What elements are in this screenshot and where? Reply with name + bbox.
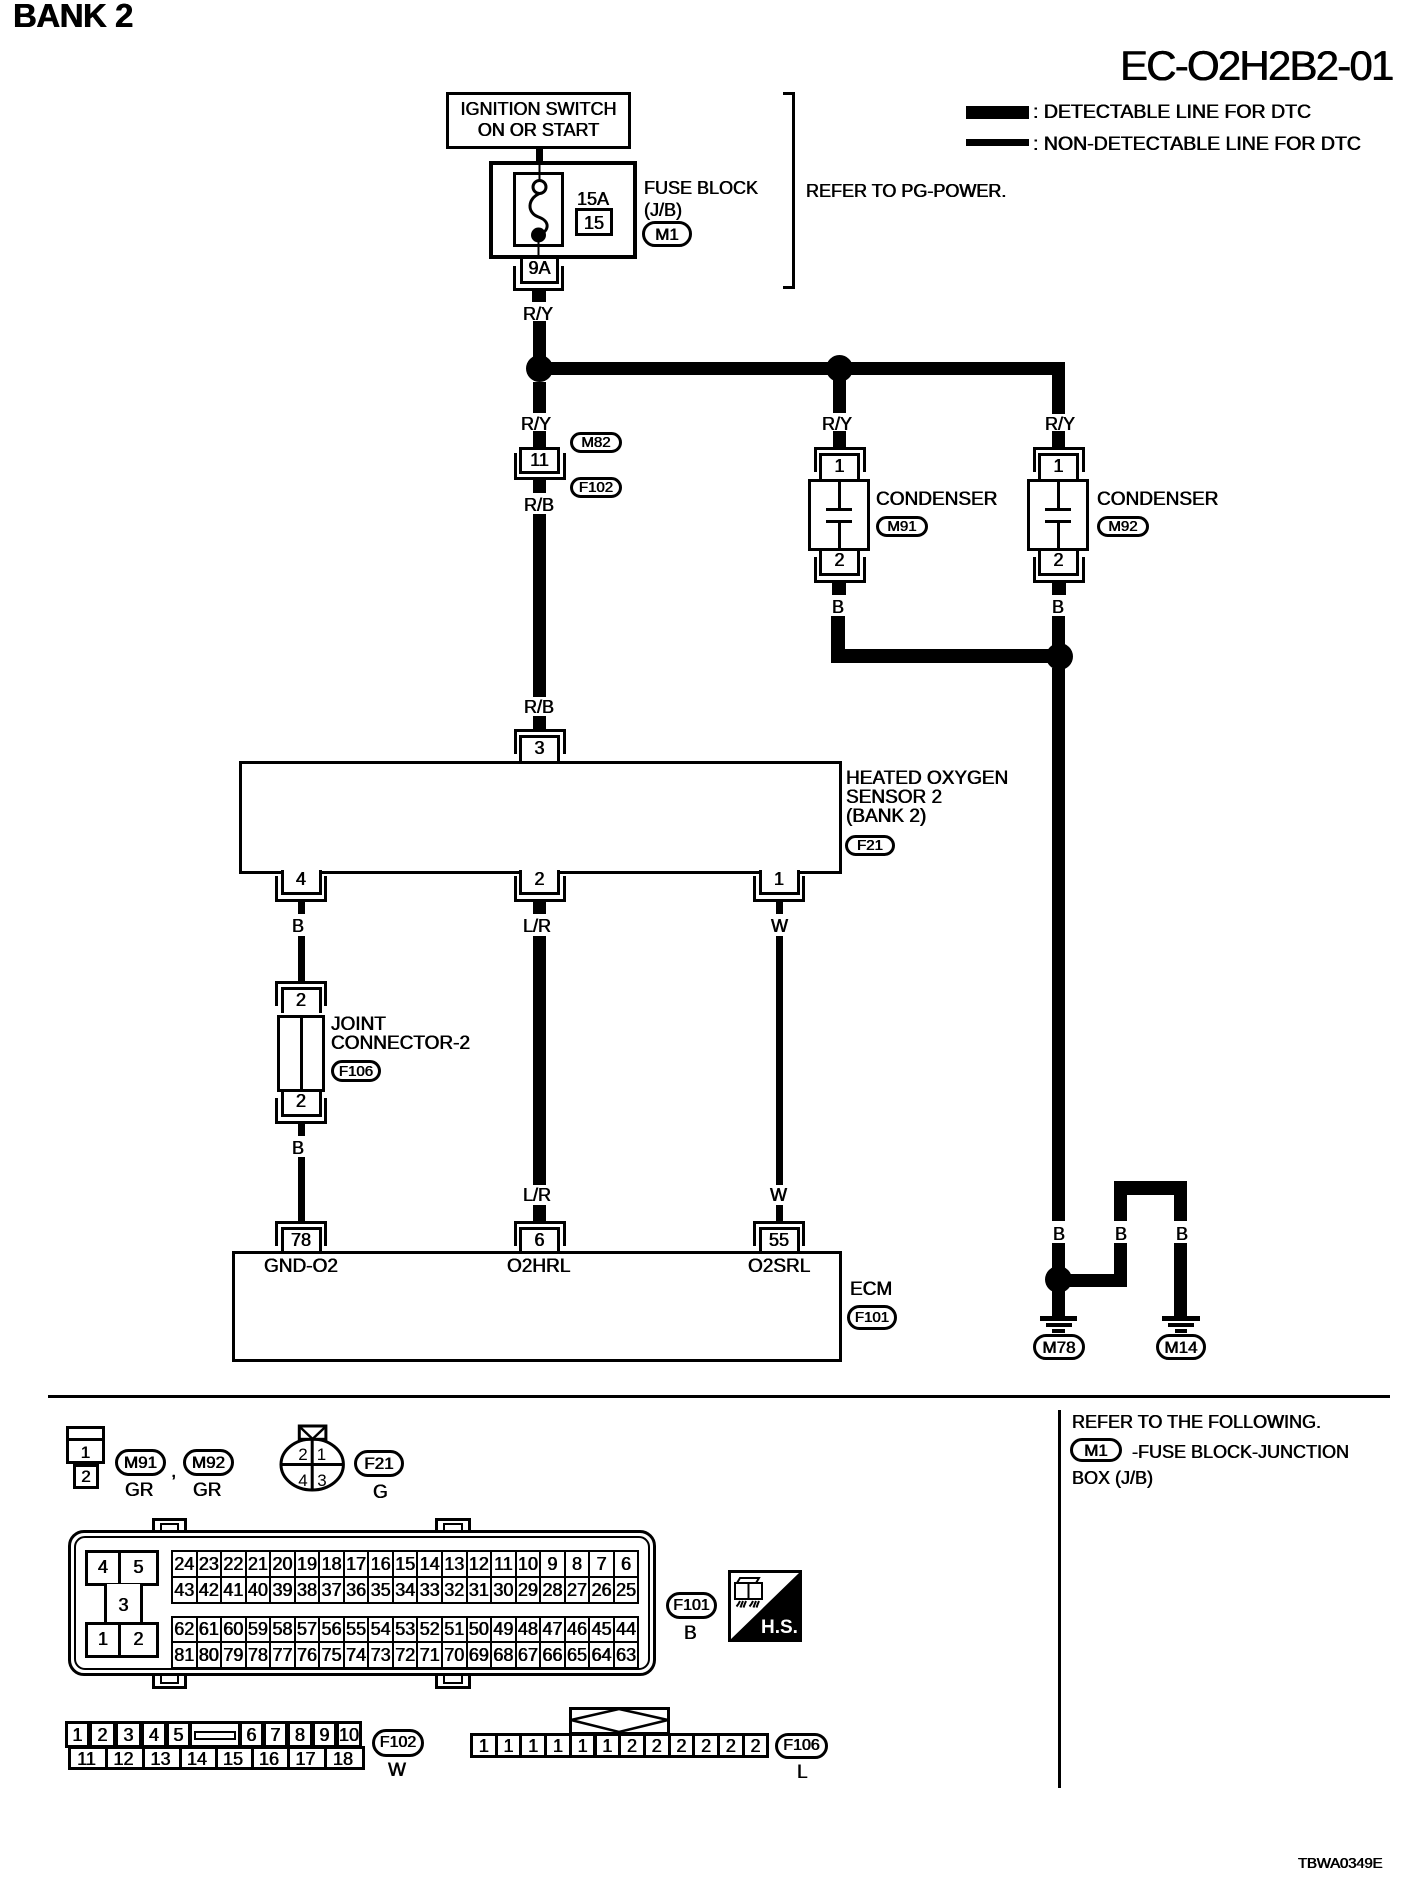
- wire B stub to ground M78: [1052, 1291, 1065, 1316]
- junction node A (left): [526, 355, 553, 382]
- wire label R/B (upper): [524, 495, 554, 516]
- svg-text:4: 4: [298, 1471, 307, 1490]
- wire B down to ECM pin 78: [298, 1157, 305, 1221]
- wire B bridge (inverted U): [1114, 1181, 1187, 1195]
- ignition switch label line2: [446, 120, 631, 141]
- joint connector pin 2 (top): [275, 981, 327, 1006]
- heated oxygen sensor 2 box F21: [239, 761, 842, 874]
- wire L/R stub below pin 2: [533, 902, 546, 914]
- junction node B (middle): [826, 355, 853, 382]
- face view oval F21: [354, 1450, 404, 1477]
- connector face view F102 row 11-18: [68, 1746, 108, 1770]
- wire label R/Y (right branch): [1045, 414, 1075, 435]
- note -FUSE BLOCK-JUNCTION: [1132, 1442, 1349, 1463]
- label HEATED OXYGEN: [846, 768, 1008, 790]
- ECM face bottom tab 1: [152, 1675, 187, 1689]
- ECM face top tab 1: [152, 1518, 187, 1531]
- connector face view M91/M92 (pins 1,2): [66, 1426, 105, 1464]
- wire label L/R (lower): [523, 1185, 551, 1206]
- wire label B (pin4): [292, 916, 304, 937]
- wire W stub above pin 55: [776, 1205, 783, 1221]
- fuse 15A symbol: [508, 150, 571, 260]
- connector oval M91: [876, 516, 928, 537]
- connector pin 11: [519, 447, 560, 474]
- ECM pin 78: [275, 1221, 327, 1246]
- condenser M91 pin 1: [814, 447, 866, 472]
- ECM face pins 1,2: [85, 1622, 121, 1658]
- condenser M91 body: [808, 479, 870, 551]
- fuse block outer box M1: [489, 161, 637, 259]
- ECM connector face view outline: [68, 1530, 656, 1676]
- wire B stub below pin 4: [298, 902, 305, 914]
- svg-text:1: 1: [317, 1445, 326, 1464]
- note BOX (J/B): [1072, 1468, 1153, 1489]
- wire stub below pin 11: [533, 480, 546, 493]
- ECM face pin grid rows 6-24/25-43: [171, 1550, 639, 1604]
- face view oval M91: [115, 1449, 166, 1476]
- condenser M91 pin 2: [819, 551, 860, 576]
- section separator line: [48, 1395, 1390, 1398]
- color W (F102): [388, 1760, 406, 1782]
- color L (F106): [797, 1762, 808, 1784]
- color B (F101): [684, 1623, 697, 1645]
- pin name GND-O2: [264, 1256, 338, 1278]
- H.S. harness symbol: [728, 1570, 802, 1642]
- wire stub to condenser M91 pin 1: [833, 431, 846, 447]
- connector pin 9A: [520, 259, 559, 284]
- wire B stub above ground junction: [1052, 1243, 1065, 1268]
- connector face view F102 row 1-10 with key slot: [65, 1721, 90, 1748]
- wire B horizontal to junction: [831, 649, 1060, 663]
- joint connector internal divider: [300, 1018, 303, 1089]
- wire stub to condenser M92 pin 1: [1052, 431, 1065, 447]
- wire B main vertical down: [1052, 668, 1065, 1221]
- wire stub to connector 11: [533, 431, 546, 447]
- svg-text:H.S.: H.S.: [761, 1617, 798, 1638]
- label (BANK 2): [846, 806, 926, 828]
- wire B vertical M91: [831, 616, 845, 663]
- wire label B (M92): [1052, 597, 1064, 618]
- label CONDENSER (M91): [876, 489, 997, 511]
- wire B vertical M92: [1052, 616, 1065, 646]
- label SENSOR 2: [846, 787, 942, 809]
- pin name O2HRL: [507, 1256, 570, 1278]
- ground symbol M78: [1040, 1316, 1077, 1321]
- wire label R/Y (fuse): [523, 304, 553, 325]
- wire label L/R (upper): [523, 916, 551, 937]
- ECM face pin 3: [104, 1584, 143, 1624]
- diagram id EC-O2H2B2-01: [1120, 41, 1393, 91]
- wire R/Y stub below 9A: [532, 291, 546, 302]
- condenser M92 pin 2: [1038, 551, 1079, 576]
- wire right branch corner down: [1052, 362, 1065, 414]
- wire R/B down to sensor: [533, 514, 546, 697]
- note REFER TO THE FOLLOWING.: [1072, 1412, 1321, 1433]
- F106 keying diamond: [569, 1707, 670, 1734]
- label ECM: [850, 1279, 892, 1301]
- ECM pin 55: [753, 1221, 805, 1246]
- wire B stub below M91 pin 2: [832, 583, 846, 595]
- wire label B (mid ground): [1115, 1224, 1127, 1245]
- ground oval M78: [1033, 1334, 1085, 1360]
- note REFER TO PG-POWER.: [806, 181, 1006, 202]
- ECM face bottom tab 2: [435, 1675, 471, 1689]
- fuse number 15: [575, 213, 613, 234]
- joint connector-2 body F106: [277, 1015, 325, 1092]
- connector oval M1: [642, 221, 692, 247]
- label CONNECTOR-2: [331, 1033, 470, 1055]
- connector oval F106: [331, 1060, 381, 1082]
- ignition switch label line1: [446, 99, 631, 120]
- wire B horizontal to junction D: [1059, 1274, 1127, 1287]
- comma between M91 M92: [171, 1461, 176, 1483]
- wire W down to ECM: [776, 936, 783, 1185]
- connector oval M92: [1097, 516, 1149, 537]
- wire B stub below joint connector: [298, 1124, 305, 1136]
- wire stub above pin 3: [533, 716, 546, 730]
- ECM face pin grid rows 44-62/63-81: [171, 1616, 639, 1670]
- label FUSE BLOCK: [644, 178, 758, 199]
- connector oval F21: [845, 835, 895, 856]
- wire label W (lower): [770, 1185, 787, 1206]
- ECM face top tab 2: [435, 1518, 471, 1531]
- junction node C (B wires): [1046, 643, 1073, 670]
- capacitor symbol M92: [1057, 479, 1060, 510]
- sensor pin 3: [514, 729, 566, 754]
- wire label R/Y (middle branch): [822, 414, 852, 435]
- connector face view F21 (round, pins 1-4): [278, 1422, 348, 1494]
- face view oval F106: [775, 1733, 828, 1759]
- condenser M92 body: [1027, 479, 1089, 551]
- ground oval M14: [1156, 1334, 1206, 1360]
- wire label B (right ground): [1176, 1224, 1188, 1245]
- pin name O2SRL: [748, 1256, 810, 1278]
- wire left branch below junction: [533, 382, 546, 413]
- label (J/B): [644, 200, 682, 221]
- ground symbol M14: [1162, 1316, 1200, 1321]
- wire W stub below pin 1: [776, 902, 783, 914]
- color GR (M91): [125, 1480, 154, 1502]
- fuse inner box: [513, 172, 564, 247]
- legend thin non-detectable line sample: [966, 139, 1029, 146]
- wire L/R stub above pin 6: [533, 1205, 546, 1221]
- face view oval F101: [666, 1592, 717, 1619]
- wire label B (main): [1053, 1224, 1065, 1245]
- connector oval F101 (schematic): [847, 1305, 897, 1330]
- capacitor symbol M91: [838, 479, 841, 510]
- wire label B (M91): [832, 597, 844, 618]
- sensor pin 1: [759, 870, 800, 895]
- junction node D (ground): [1045, 1266, 1072, 1293]
- joint connector pin 2 (bottom): [281, 1092, 322, 1117]
- face view oval F102: [372, 1729, 424, 1757]
- wire middle branch below junction: [833, 375, 846, 413]
- connector face view F106 row 1/2: [470, 1733, 498, 1758]
- wire label W (upper): [771, 916, 788, 937]
- legend text detectable: [1033, 101, 1311, 124]
- wire ignition to fuse stub: [536, 149, 543, 161]
- sensor pin 2: [519, 870, 560, 895]
- footer vertical divider: [1058, 1410, 1061, 1788]
- connector oval M82: [570, 432, 622, 453]
- svg-text:3: 3: [317, 1471, 326, 1490]
- footer oval M1: [1070, 1438, 1122, 1462]
- svg-text:2: 2: [298, 1445, 307, 1464]
- reference bracket: [792, 92, 795, 289]
- wire R/Y to junction: [533, 321, 546, 357]
- face view oval M92: [183, 1449, 234, 1476]
- fuse number box 15: [575, 208, 613, 236]
- wire B mid branch to junction: [1114, 1243, 1127, 1287]
- wire label R/B (lower): [524, 697, 554, 718]
- color G (F21): [373, 1482, 388, 1504]
- ignition switch box: [446, 92, 631, 149]
- title BANK 2: [13, 0, 133, 36]
- wire label R/Y (left branch): [521, 414, 551, 435]
- ECM face pins 4,5: [85, 1550, 121, 1586]
- wire B down to joint connector: [298, 936, 305, 981]
- sensor pin 4: [281, 870, 322, 895]
- ECM pin 6: [514, 1221, 566, 1246]
- color GR (M92): [193, 1480, 222, 1502]
- fuse rating 15A: [577, 189, 609, 210]
- legend thick detectable line sample: [966, 106, 1029, 119]
- label JOINT: [331, 1014, 386, 1036]
- connector oval F102: [570, 477, 622, 498]
- drawing code TBWA0349E: [1298, 1855, 1382, 1873]
- wire B stub below M92 pin 2: [1052, 583, 1066, 595]
- wire B right branch down: [1174, 1243, 1187, 1316]
- label CONDENSER (M92): [1097, 489, 1218, 511]
- wire main horizontal rail R/Y: [533, 362, 1065, 375]
- condenser M92 pin 1: [1033, 447, 1085, 472]
- wire L/R down to ECM: [533, 936, 546, 1185]
- wire label B (joint): [292, 1138, 304, 1159]
- legend text non-detectable: [1033, 133, 1361, 156]
- ECM box F101: [232, 1251, 842, 1362]
